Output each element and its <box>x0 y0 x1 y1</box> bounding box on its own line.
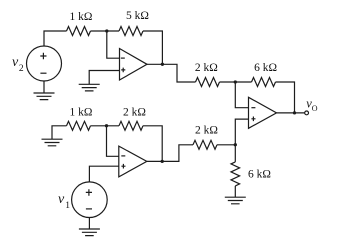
wire U1 output to 2k (with corner) <box>147 64 196 82</box>
ground (below v1) <box>79 229 100 236</box>
ground (below v2) <box>34 93 55 100</box>
svg-text:2 kΩ: 2 kΩ <box>123 106 146 118</box>
svg-text:6 kΩ: 6 kΩ <box>254 62 277 74</box>
wire node D down to 6k vertical <box>234 145 236 162</box>
wire node D up to U3 noninverting input <box>235 119 248 145</box>
ground (U1 + input) <box>79 84 100 91</box>
wire v1 bottom to ground <box>88 218 90 230</box>
op-amp U3 <box>249 97 277 128</box>
U1 minus sign <box>121 57 125 59</box>
wire node F down to U2 inverting input <box>107 126 119 157</box>
svg-text:2 kΩ: 2 kΩ <box>195 124 218 136</box>
wire U2 output to 2k (with corner) <box>147 145 193 162</box>
op-amp U2 <box>119 146 147 177</box>
resistor 6 kOhm (feedback U3) <box>252 78 276 87</box>
wire 5k to U1 output (down) <box>143 31 162 64</box>
node D (U3 + / 6k junction) <box>234 143 237 146</box>
ground (below 6k vertical) <box>225 197 246 204</box>
U3 plus sign <box>251 117 255 122</box>
svg-text:1 kΩ: 1 kΩ <box>70 11 93 23</box>
U2 plus sign <box>121 164 125 169</box>
wire 6k vertical to ground <box>234 186 236 197</box>
svg-text:O: O <box>312 104 318 113</box>
wire 6k to U3 output (down) <box>276 82 295 113</box>
svg-text:2: 2 <box>19 64 24 74</box>
wire v1 to U2 noninverting input <box>89 166 118 182</box>
source v1 <box>72 182 108 218</box>
wire 1k to 5k <box>91 30 120 32</box>
svg-text:v: v <box>58 192 65 207</box>
svg-text:5 kΩ: 5 kΩ <box>126 10 149 22</box>
node G (U2 output / feedback junction) <box>161 160 164 163</box>
resistor 1 kOhm (top left) <box>67 27 91 36</box>
node C (U3 inverting junction) <box>234 80 237 83</box>
op-amp U1 <box>120 49 148 81</box>
node A (top wire junction) <box>105 29 108 32</box>
wire node C down to U3 inverting input <box>235 82 248 108</box>
svg-text:2 kΩ: 2 kΩ <box>195 62 218 74</box>
svg-text:1 kΩ: 1 kΩ <box>70 106 93 118</box>
node B (U1 output / feedback junction) <box>161 63 164 66</box>
U1 plus sign <box>121 68 125 73</box>
wire v2 bottom to ground <box>43 81 45 93</box>
v1 minus sign <box>86 208 92 210</box>
resistor 2 kOhm (U1 to U3) <box>196 78 220 87</box>
wire U3 output to terminal <box>277 112 305 114</box>
resistor 2 kOhm (U2 to U3) <box>193 140 217 149</box>
wire ground to U1 noninverting input <box>89 71 119 85</box>
resistor 6 kOhm (vertical to ground) <box>231 162 240 186</box>
resistor 2 kOhm (feedback U2) <box>119 121 143 130</box>
svg-text:6 kΩ: 6 kΩ <box>248 168 271 180</box>
wire 2k to node C <box>220 81 252 83</box>
v1 plus sign <box>86 189 92 196</box>
svg-text:1: 1 <box>65 201 70 211</box>
wire node A down to U1 inverting input <box>107 31 120 58</box>
wire 2k to U2 output (down) <box>143 126 162 162</box>
source v2 <box>27 46 62 81</box>
U3 minus sign <box>251 107 255 109</box>
v2 minus sign <box>40 72 46 74</box>
U2 minus sign <box>121 155 125 157</box>
wire v2 top to 1k <box>44 31 67 46</box>
resistor 5 kOhm (feedback U1) <box>119 27 143 36</box>
node F (bottom wire junction) <box>105 124 108 127</box>
v2 plus sign <box>40 53 46 60</box>
wire 1k to 2k (bottom) <box>91 125 120 127</box>
wire 2k to node D <box>217 144 235 146</box>
wire ground up to bottom 1k <box>52 126 67 139</box>
ground (bottom left, into 1k) <box>42 139 63 146</box>
node E (U3 output / feedback junction) <box>293 111 296 114</box>
resistor 1 kOhm (bottom) <box>67 121 91 130</box>
output terminal vO (open circle) <box>305 111 309 115</box>
